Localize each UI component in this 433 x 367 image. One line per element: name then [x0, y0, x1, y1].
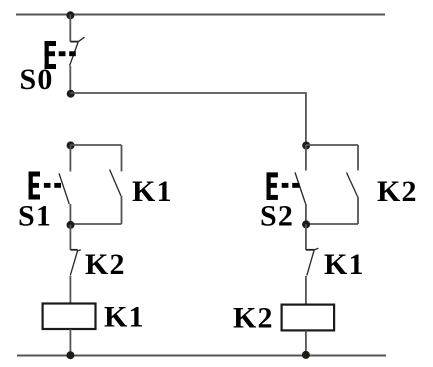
wire node A to right branch [70, 93, 306, 145]
wire K2 NC top stub [69, 225, 71, 250]
wire S1 bottom stub [69, 204, 71, 225]
wire K1 coil to rail [69, 329, 71, 356]
wire right parallel box bottom [306, 223, 358, 225]
actuator E of S1 [29, 172, 61, 200]
svg-text:K1: K1 [104, 301, 145, 334]
svg-text:K2: K2 [233, 302, 274, 335]
wire K1 contact bottom stub [121, 196, 123, 224]
wire K2 contact bottom stub [357, 197, 359, 225]
wire right parallel box top [306, 144, 358, 146]
contact K1 blade (NC) [307, 248, 319, 275]
actuator E of S0 [45, 41, 76, 69]
junction dot bottom rail right [302, 351, 310, 359]
svg-text:K2: K2 [85, 248, 126, 281]
junction dot node A [67, 90, 75, 98]
svg-text:S1: S1 [18, 200, 52, 233]
wire S2 bottom stub [305, 204, 307, 224]
junction dot right branch split [302, 142, 310, 150]
junction dot left branch merge [67, 221, 75, 229]
contact K2 fixed bar [70, 249, 77, 251]
svg-text:K1: K1 [324, 248, 365, 281]
contact S2 blade (NO) [295, 172, 306, 204]
contact K1 fixed bar [306, 249, 314, 251]
contact S0 blade (NC) [70, 37, 85, 66]
wire K1 NC bottom stub [305, 276, 307, 305]
junction dot left branch split [67, 141, 75, 149]
contact K1 blade (NO) [110, 170, 121, 197]
junction dot top rail [66, 11, 74, 19]
contact K2 blade (NC) [70, 250, 81, 276]
wire K2 coil to rail [305, 330, 307, 355]
wire left parallel box top [70, 144, 121, 146]
svg-text:S0: S0 [20, 63, 54, 96]
wire K1 contact top stub [121, 145, 123, 171]
coil K1 [43, 304, 96, 330]
wire S0 bottom stub [69, 66, 71, 93]
wire S0 top stub [69, 15, 71, 42]
junction dot right branch merge [302, 220, 310, 228]
wire K2 contact top stub [357, 145, 359, 170]
wire S2 top stub [305, 145, 307, 171]
coil K2 [282, 305, 335, 331]
top supply rail [16, 14, 385, 16]
wire S1 top stub [69, 145, 71, 172]
actuator E of S2 [267, 172, 300, 200]
contact S1 blade (NO) [59, 173, 69, 204]
wire left parallel box bottom [70, 223, 121, 225]
svg-text:K2: K2 [377, 175, 418, 208]
junction dot bottom rail left [66, 351, 74, 359]
wire K2 NC bottom stub [69, 276, 71, 304]
bottom supply rail [17, 355, 386, 357]
svg-text:S2: S2 [260, 200, 294, 233]
contact S0 fixed bar [70, 41, 78, 43]
wire K1 NC top stub [305, 224, 307, 250]
svg-text:K1: K1 [132, 175, 173, 208]
contact K2 blade (NO) [347, 173, 358, 197]
